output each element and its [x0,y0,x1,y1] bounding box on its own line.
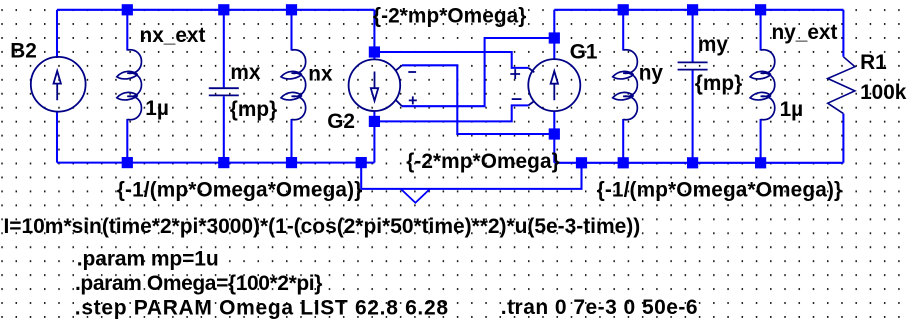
svg-text:.tran 0 7e-3 0 50e-6: .tran 0 7e-3 0 50e-6 [501,296,698,319]
svg-text:nx: nx [308,62,333,85]
svg-text:I=10m*sin(time*2*pi*3000)*(1-(: I=10m*sin(time*2*pi*3000)*(1-(cos(2*pi*5… [4,215,641,238]
svg-text:{mp}: {mp} [230,98,277,121]
svg-text:ny_ext: ny_ext [772,21,838,44]
svg-text:B2: B2 [10,40,37,63]
svg-text:.step PARAM Omega LIST 62.8 6.: .step PARAM Omega LIST 62.8 6.28 [75,297,449,320]
svg-text:{-2*mp*Omega}: {-2*mp*Omega} [406,150,560,173]
svg-text:ny: ny [639,62,664,85]
svg-text:.param mp=1u: .param mp=1u [77,248,219,271]
svg-text:100k: 100k [860,81,907,104]
svg-text:G2: G2 [327,110,355,133]
svg-text:G1: G1 [570,41,598,64]
svg-text:{-1/(mp*Omega*Omega)}: {-1/(mp*Omega*Omega)} [597,179,843,202]
svg-text:1µ: 1µ [780,98,804,121]
svg-text:mx: mx [230,61,260,84]
svg-text:.param Omega={100*2*pi}: .param Omega={100*2*pi} [75,272,322,295]
svg-text:my: my [698,33,728,56]
svg-text:{mp}: {mp} [695,72,742,95]
svg-text:{-1/(mp*Omega*Omega)}: {-1/(mp*Omega*Omega)} [117,179,362,202]
svg-text:R1: R1 [860,51,887,74]
svg-text:{-2*mp*Omega}: {-2*mp*Omega} [373,5,527,28]
svg-text:nx_ext: nx_ext [140,24,206,47]
svg-text:1µ: 1µ [145,97,169,120]
